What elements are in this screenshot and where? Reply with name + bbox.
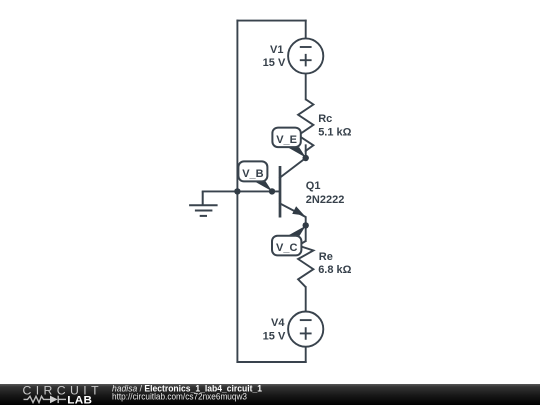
flag V_C box: [272, 236, 301, 256]
wire emitter: [280, 204, 306, 242]
node dot V_E attach: [303, 155, 309, 161]
flag V_E tail: [287, 147, 306, 158]
logo resistor-diode glyph: [24, 396, 67, 403]
flag V_C tail: [287, 226, 306, 237]
svg-text:V4: V4: [271, 317, 285, 329]
flag V_B tail: [253, 181, 272, 192]
voltage source V4: [288, 312, 323, 347]
wire Rc to node VE: [305, 145, 307, 158]
wire collector: [280, 158, 306, 178]
svg-text:V_C: V_C: [276, 242, 297, 254]
svg-text:http://circuitlab.com/cs72nxe6: http://circuitlab.com/cs72nxe6muqw3: [112, 391, 247, 401]
footer bar: [0, 384, 540, 405]
logo diode triangle: [50, 396, 58, 404]
svg-text:V1: V1: [270, 44, 283, 56]
svg-text:5.1 kΩ: 5.1 kΩ: [318, 127, 351, 139]
svg-text:V_B: V_B: [242, 168, 263, 180]
flag V_B box: [238, 161, 267, 181]
svg-text:2N2222: 2N2222: [306, 194, 345, 206]
voltage source V1: [288, 38, 323, 73]
svg-text:Rc: Rc: [318, 113, 332, 125]
svg-text:Q1: Q1: [306, 180, 321, 192]
svg-text:Re: Re: [319, 251, 333, 263]
svg-text:V_E: V_E: [276, 134, 297, 146]
resistor Rc: [298, 99, 313, 152]
svg-text:6.8 kΩ: 6.8 kΩ: [318, 264, 351, 276]
wire top: [237, 20, 305, 22]
flag V_E box: [272, 128, 300, 148]
ground: [189, 191, 218, 216]
wire left rail: [236, 21, 238, 362]
wire V4 bottom lead: [305, 347, 307, 362]
wire bottom: [237, 361, 305, 363]
svg-text:15 V: 15 V: [263, 57, 286, 69]
node dot base-rail junction: [234, 188, 240, 194]
transistor Q1 emitter arrow: [292, 206, 304, 215]
node dot V_B attach: [269, 188, 275, 194]
wire Re to V4: [305, 287, 307, 311]
wire base: [203, 190, 280, 192]
wire V1 to Rc: [305, 74, 307, 100]
transistor Q1 body bar: [279, 166, 282, 218]
svg-text:15 V: 15 V: [263, 331, 286, 343]
svg-text:LAB: LAB: [67, 394, 92, 405]
node dot V_C attach: [303, 222, 309, 228]
wire V1 top lead: [305, 21, 307, 39]
resistor Re: [298, 241, 313, 287]
